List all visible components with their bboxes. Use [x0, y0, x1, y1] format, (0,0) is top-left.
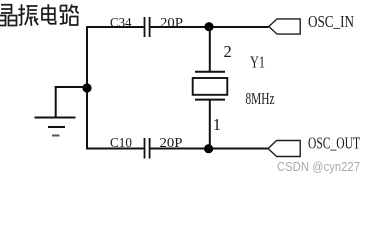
net label OSC_IN [308, 12, 354, 31]
char 晶 (partially clipped) [0, 5, 17, 26]
junction node ground branch [82, 83, 91, 92]
designator Y1 [250, 52, 265, 71]
wire ground branch horizontal [55, 86, 87, 88]
wire bottom horizontal left segment [86, 148, 144, 150]
svg-text:C34: C34 [110, 16, 132, 31]
char 振 [18, 4, 38, 26]
wire crystal upper vertical (pin 2) [209, 27, 211, 72]
capacitor C34 [145, 17, 150, 37]
svg-text:2: 2 [224, 42, 232, 61]
junction node bottom (wire to crystal pin 1) [204, 144, 213, 153]
label C34 [110, 16, 132, 31]
wire top horizontal left segment [86, 26, 144, 28]
svg-text:20P: 20P [160, 16, 183, 31]
svg-text:20P: 20P [160, 136, 183, 151]
pin number 2 [224, 42, 232, 61]
svg-text:OSC_IN: OSC_IN [308, 12, 354, 31]
svg-text:1: 1 [213, 115, 221, 134]
port connector OSC_OUT [268, 141, 300, 157]
watermark CSDN @cyn227 [277, 159, 360, 174]
wire left vertical [86, 26, 88, 150]
value 20P (top) [160, 16, 183, 31]
pin number 1 [213, 115, 221, 134]
char 电 [42, 4, 56, 24]
svg-text:C10: C10 [110, 136, 132, 151]
wire crystal lower vertical (pin 1) [209, 100, 211, 149]
svg-text:CSDN @cyn227: CSDN @cyn227 [277, 159, 360, 174]
label C10 [110, 136, 132, 151]
wire top horizontal right segment [150, 26, 268, 28]
crystal Y1 [193, 72, 228, 100]
net label OSC_OUT [308, 134, 360, 153]
port connector OSC_IN [269, 19, 300, 34]
value 20P (bottom) [160, 136, 183, 151]
wire ground branch vertical [55, 86, 57, 117]
value 8MHz [246, 89, 275, 108]
svg-text:Y1: Y1 [250, 52, 265, 71]
junction node top (wire to crystal pin 2) [204, 22, 213, 31]
wire bottom horizontal right segment [150, 148, 268, 150]
char 路 [60, 5, 79, 26]
svg-text:OSC_OUT: OSC_OUT [308, 134, 360, 153]
svg-text:8MHz: 8MHz [246, 89, 275, 108]
title 晶振电路 (hand-drawn strokes, clipped at left edge) [0, 4, 79, 26]
capacitor C10 [145, 138, 150, 159]
ground [35, 118, 76, 136]
